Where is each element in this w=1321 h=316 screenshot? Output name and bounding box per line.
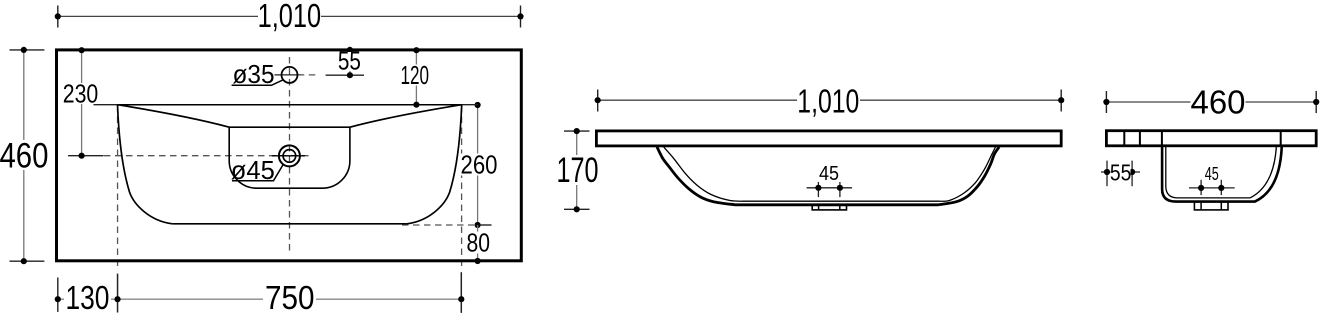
svg-text:1,010: 1,010 — [258, 0, 322, 34]
faucet hole ø35 — [282, 67, 298, 83]
front basin outer wall — [657, 147, 999, 205]
drain hole ø45 outer — [279, 145, 300, 166]
basin inner rim curve right — [350, 105, 462, 128]
svg-text:260: 260 — [461, 150, 498, 180]
basin outer bowl bottom — [172, 223, 407, 225]
front basin inner wall — [664, 147, 996, 201]
svg-text:130: 130 — [65, 279, 109, 316]
basin floor rounded rectangle — [229, 127, 350, 188]
dim 170 left line — [576, 131, 578, 209]
side faucet hole edges — [1123, 131, 1125, 146]
dim 55 side — [1101, 171, 1140, 173]
svg-text:80: 80 — [466, 228, 490, 258]
svg-text:1,010: 1,010 — [797, 83, 859, 120]
front counter slab — [596, 131, 1061, 146]
basin back edge line — [118, 104, 462, 106]
svg-text:55: 55 — [1110, 159, 1132, 185]
dim 120 vertical — [415, 50, 417, 104]
side basin outer wall — [1162, 146, 1282, 202]
front drain box — [812, 204, 846, 210]
side drain box — [1194, 202, 1228, 210]
dim 460 left line — [23, 50, 25, 261]
dim 80 vertical right — [477, 225, 479, 261]
drain hole ø45 inner — [283, 150, 296, 163]
svg-text:230: 230 — [63, 79, 99, 109]
side drain inner verticals — [1200, 202, 1202, 210]
svg-text:460: 460 — [1191, 85, 1246, 122]
side basin cut right edge in slab — [1280, 131, 1282, 146]
dim 1,010 top line — [58, 15, 259, 17]
side basin cut left edge in slab — [1161, 131, 1163, 146]
faucet horizontal dashes — [275, 74, 302, 76]
top view outer rectangle (counter top) — [57, 50, 522, 261]
basin outer bowl outline right — [407, 105, 462, 224]
svg-text:460: 460 — [0, 137, 48, 176]
basin bottom level dashed (80 ref) — [402, 224, 474, 226]
text labels top view — [0, 0, 498, 316]
dim 130 / 750 bottom line — [58, 298, 462, 300]
basin outer bowl outline left — [118, 105, 173, 224]
basin right extension dashed — [461, 106, 463, 271]
dim 45 front — [807, 187, 853, 189]
dim 45 side — [1189, 187, 1235, 189]
dim 460 side line — [1106, 101, 1192, 103]
centerline vertical dashed (faucet/drain axis) — [289, 57, 291, 251]
front drain inner verticals — [818, 204, 820, 210]
svg-text:120: 120 — [401, 60, 430, 90]
centerline horizontal dashed — [104, 155, 311, 157]
basin top edge thin extension (230 underline to 260 line) — [94, 104, 479, 106]
svg-text:45: 45 — [819, 163, 839, 185]
dim 55 vertical (faucet offset) — [349, 50, 351, 75]
svg-text:170: 170 — [557, 151, 599, 190]
side counter slab — [1106, 131, 1316, 146]
side basin inner wall — [1166, 146, 1277, 198]
svg-text:750: 750 — [265, 279, 315, 316]
dim 260 vertical right — [477, 105, 479, 225]
basin inner rim curve left — [118, 105, 230, 128]
drain crosshair horizontal — [272, 155, 305, 157]
dim 1,010 front line — [598, 99, 797, 101]
dim 230 vertical — [81, 50, 83, 156]
basin left extension dashed — [117, 106, 119, 269]
svg-text:45: 45 — [1205, 164, 1219, 184]
